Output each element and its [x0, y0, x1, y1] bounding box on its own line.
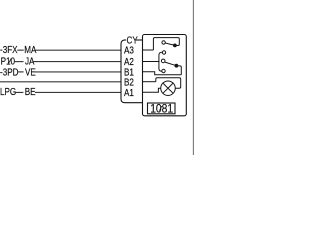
slashed zero of P10	[9, 58, 12, 63]
wire color JA	[25, 56, 35, 67]
connector CY dash to box	[136, 39, 143, 41]
connector CY bracket	[121, 40, 143, 103]
svg-text:MA: MA	[24, 44, 37, 55]
switch S2 contact bracket	[159, 52, 162, 71]
lamp cross stroke 2	[163, 83, 173, 93]
pin B2 stub	[143, 81, 156, 83]
wire MA to pin A3	[36, 49, 122, 51]
wire VE to pin B1	[35, 71, 122, 73]
pin A1 stub with step up to lamp	[143, 88, 161, 92]
switch S1 moving contact dot	[173, 44, 177, 48]
svg-text:-3FX: -3FX	[0, 44, 18, 55]
svg-text:-3PD: -3PD	[0, 66, 19, 77]
wire JA label P10	[1, 56, 15, 67]
pin label A3	[124, 45, 134, 56]
wire MA label -3FX	[0, 44, 18, 55]
wire dash row5	[15, 91, 24, 93]
pin label A1	[124, 87, 134, 98]
lamp L1	[161, 81, 176, 96]
wire color BE	[25, 86, 36, 97]
svg-text:VE: VE	[25, 66, 36, 77]
wire dash row1	[17, 49, 23, 51]
wire dash row3	[17, 71, 23, 73]
pin A3 stub	[143, 49, 154, 51]
slashed zero of 1081	[160, 106, 162, 111]
switch S2 middle pivot contact	[161, 59, 165, 63]
wire to pin B2 (unlabeled)	[0, 81, 121, 83]
component number box	[148, 103, 176, 114]
component 1081 outer box	[143, 35, 187, 116]
lamp feed frame	[156, 78, 181, 89]
page border right	[192, 0, 194, 155]
pin label B2	[124, 76, 134, 87]
wire dash row2	[14, 61, 24, 63]
switch S1 frame	[153, 38, 179, 50]
svg-text:LPG: LPG	[0, 86, 16, 97]
svg-text:A3: A3	[124, 45, 134, 56]
svg-text:A1: A1	[124, 87, 134, 98]
connector name CY	[127, 35, 138, 46]
wire BE to pin A1	[35, 91, 121, 93]
switch S2 moving contact dot	[175, 64, 179, 68]
switch S2 arm	[165, 62, 177, 66]
wire color VE	[25, 66, 36, 77]
wire JA to pin A2	[34, 61, 122, 63]
wire VE label -3PD	[0, 66, 19, 77]
pin label A2	[124, 56, 134, 67]
svg-text:P10: P10	[1, 56, 15, 67]
switch S1 pivot contact	[162, 41, 165, 44]
svg-text:BE: BE	[25, 86, 36, 97]
wire color MA	[24, 44, 37, 55]
component number 1081	[150, 103, 173, 116]
svg-text:B2: B2	[124, 76, 134, 87]
switch S2 top contact	[162, 51, 165, 54]
pin B1 stub with step to switch output	[143, 72, 182, 75]
pin A2 stub	[143, 61, 160, 63]
pin label B1	[124, 66, 134, 77]
connector CY leader dash	[124, 39, 126, 41]
switch S2 bottom contact	[162, 69, 165, 72]
switch S2 output drop wire	[176, 66, 181, 75]
wire BE label LPG	[0, 86, 16, 97]
svg-text:1081: 1081	[150, 103, 173, 116]
switch S1 arm	[165, 43, 175, 45]
lamp cross stroke 1	[163, 83, 173, 93]
